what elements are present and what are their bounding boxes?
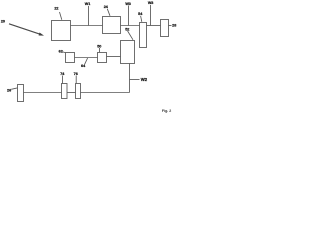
- svg-text:26: 26: [7, 88, 11, 92]
- svg-text:W2: W2: [141, 77, 148, 82]
- svg-text:64: 64: [81, 64, 86, 68]
- svg-text:W1: W1: [85, 2, 91, 6]
- svg-text:W3: W3: [148, 1, 154, 5]
- svg-text:W3: W3: [125, 2, 131, 6]
- svg-text:28: 28: [172, 24, 176, 28]
- svg-text:24: 24: [104, 5, 109, 9]
- svg-text:Fig. 2: Fig. 2: [162, 109, 171, 113]
- svg-text:20: 20: [1, 20, 5, 24]
- svg-text:54: 54: [138, 12, 143, 16]
- svg-text:62: 62: [59, 49, 63, 53]
- svg-text:52: 52: [125, 28, 129, 32]
- svg-text:74: 74: [60, 72, 65, 76]
- svg-text:50: 50: [97, 45, 101, 49]
- svg-text:22: 22: [54, 7, 58, 11]
- svg-text:76: 76: [74, 72, 78, 76]
